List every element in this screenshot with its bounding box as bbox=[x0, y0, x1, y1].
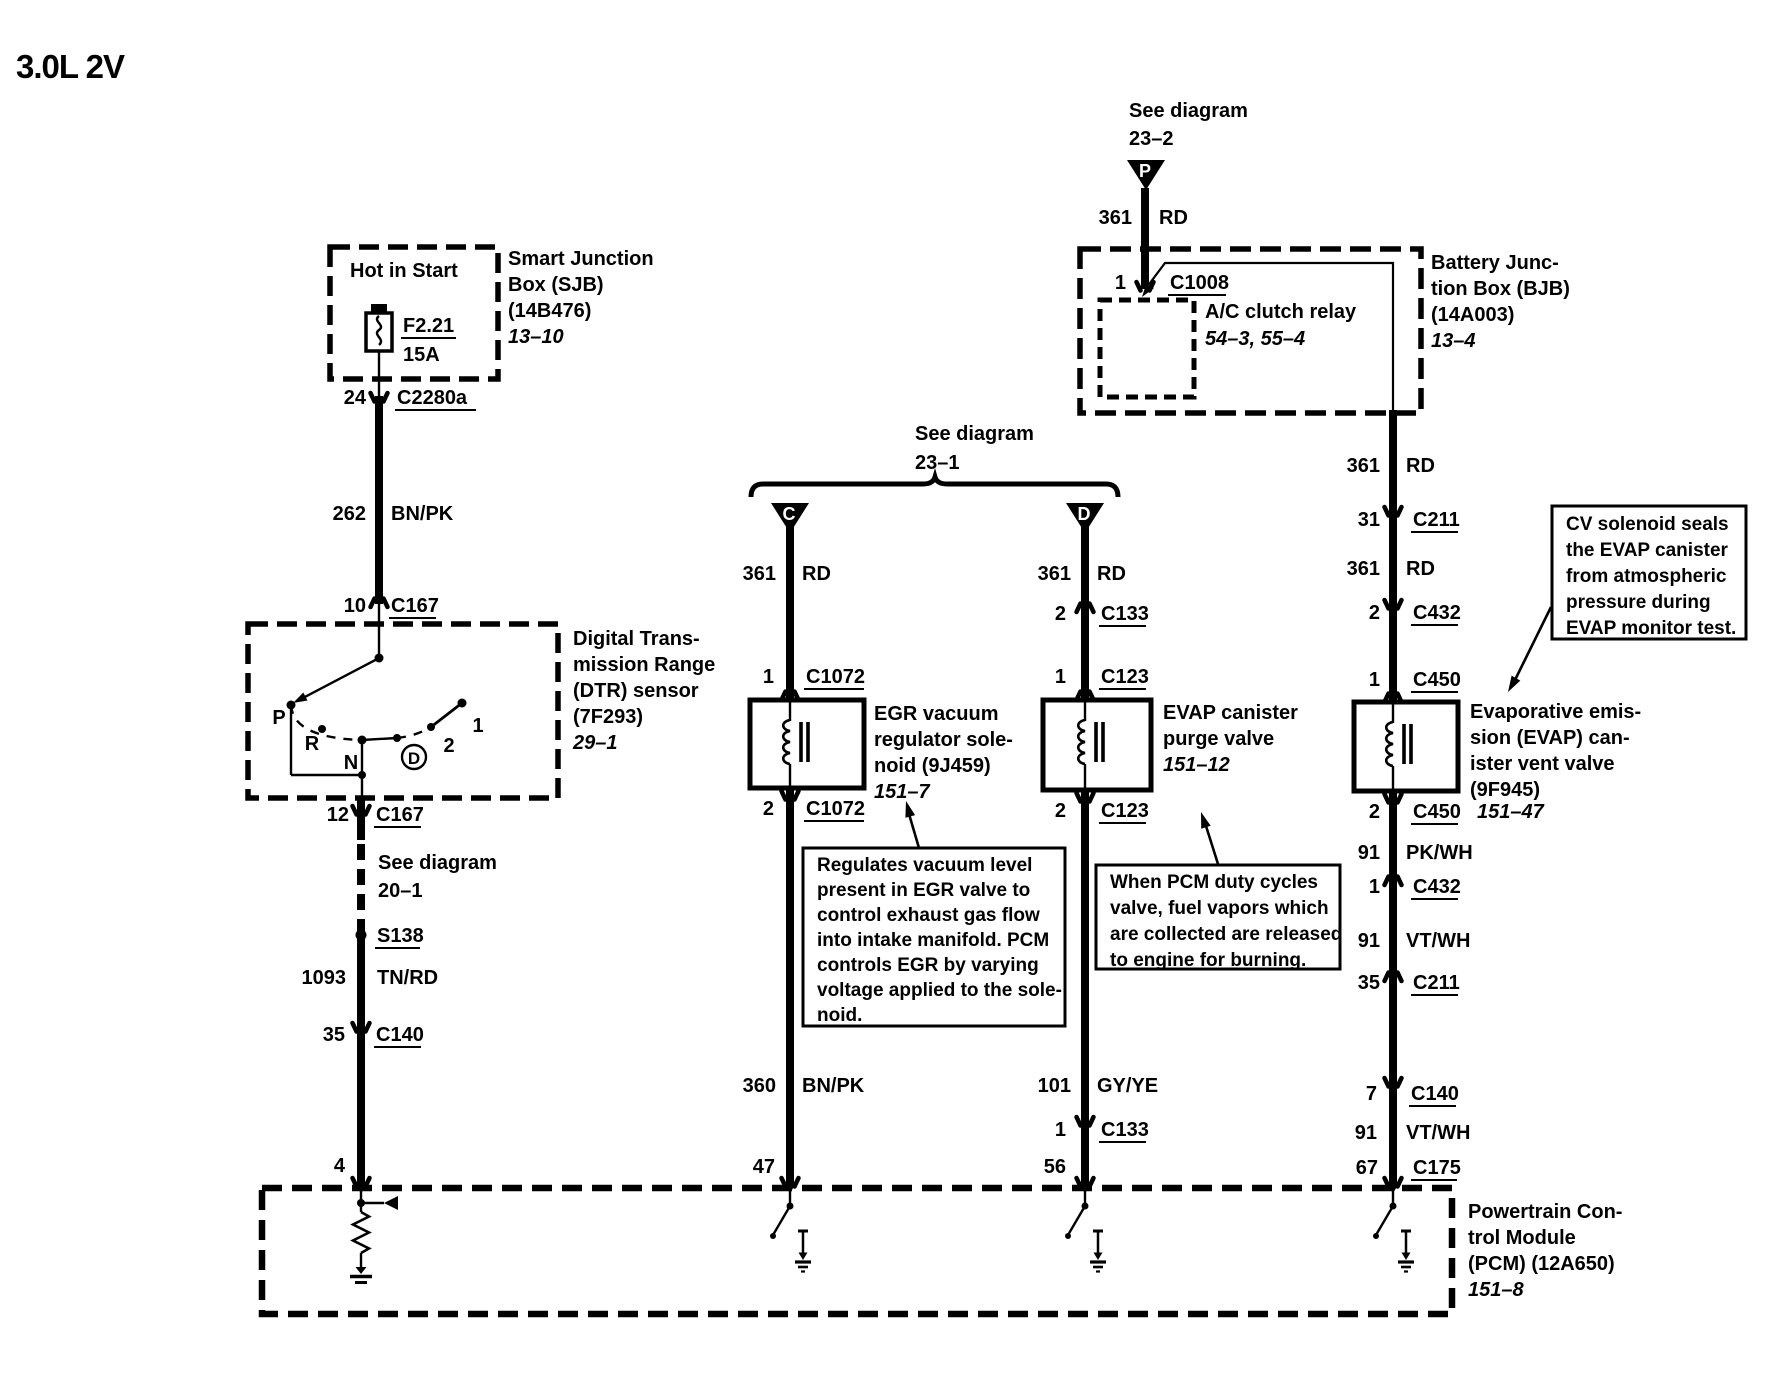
svg-text:tion Box (BJB): tion Box (BJB) bbox=[1431, 278, 1570, 300]
connector C133 pin 1 bbox=[1077, 1117, 1094, 1133]
svg-text:4: 4 bbox=[334, 1155, 346, 1177]
wire 1093 TN/RD bbox=[357, 800, 365, 840]
svg-text:C1072: C1072 bbox=[806, 666, 865, 688]
wire 361 RD below BJB bbox=[1389, 410, 1397, 702]
wire 361 RD (C) bbox=[786, 508, 794, 700]
svg-text:C167: C167 bbox=[391, 595, 439, 617]
svg-text:C211: C211 bbox=[1413, 972, 1460, 994]
svg-text:D: D bbox=[1078, 504, 1091, 524]
svg-text:20–1: 20–1 bbox=[378, 880, 423, 902]
svg-text:23–1: 23–1 bbox=[915, 452, 960, 474]
svg-text:24: 24 bbox=[344, 387, 367, 409]
EVAP canister purge valve bbox=[1043, 700, 1151, 790]
svg-text:13–4: 13–4 bbox=[1431, 330, 1476, 352]
svg-text:101: 101 bbox=[1038, 1075, 1071, 1097]
connector C432 pin 2 bbox=[1385, 600, 1402, 616]
svg-text:C432: C432 bbox=[1413, 602, 1461, 624]
svg-text:151–12: 151–12 bbox=[1163, 754, 1230, 776]
wire 2 to 1 bbox=[431, 703, 462, 727]
thin wire through BJB bbox=[1147, 263, 1393, 412]
svg-text:C140: C140 bbox=[1411, 1083, 1459, 1105]
connector C432 pin 1 bbox=[1385, 870, 1402, 886]
contact 2 bbox=[427, 723, 435, 731]
svg-text:CV solenoid seals: CV solenoid seals bbox=[1566, 514, 1729, 535]
svg-text:RD: RD bbox=[1097, 563, 1126, 585]
brace bbox=[751, 477, 1118, 497]
svg-text:C1008: C1008 bbox=[1170, 272, 1229, 294]
svg-text:See diagram: See diagram bbox=[378, 852, 497, 874]
svg-text:47: 47 bbox=[753, 1156, 775, 1178]
svg-text:See diagram: See diagram bbox=[1129, 100, 1248, 122]
contact N bbox=[358, 736, 367, 745]
connector C1008 pin 1 bbox=[1137, 282, 1154, 291]
DTR sensor box (Digital Transmission Range sensor) bbox=[248, 624, 558, 798]
splice S138 bbox=[356, 930, 367, 941]
svg-text:to engine for burning.: to engine for burning. bbox=[1110, 950, 1306, 971]
svg-text:361: 361 bbox=[1347, 558, 1380, 580]
arrow CV note to vent valve bbox=[1515, 607, 1551, 680]
wire 360 BN/PK bbox=[786, 788, 794, 1186]
svg-text:151–8: 151–8 bbox=[1468, 1279, 1524, 1301]
svg-text:54–3, 55–4: 54–3, 55–4 bbox=[1205, 328, 1305, 350]
fuse F2.21 15A bbox=[371, 304, 387, 313]
wire 361 RD (P) bbox=[1141, 188, 1149, 289]
svg-text:F2.21: F2.21 bbox=[403, 315, 454, 337]
svg-text:EVAP canister: EVAP canister bbox=[1163, 702, 1298, 724]
svg-text:1: 1 bbox=[1055, 666, 1066, 688]
note box purge valve function bbox=[1096, 865, 1340, 969]
contact D bbox=[393, 734, 401, 742]
svg-text:C211: C211 bbox=[1413, 509, 1460, 531]
connector C167 pin 12 bbox=[353, 806, 370, 822]
svg-text:361: 361 bbox=[743, 563, 776, 585]
svg-text:91: 91 bbox=[1358, 930, 1380, 952]
connector C450 pin 2 bbox=[1385, 794, 1402, 810]
svg-text:C175: C175 bbox=[1413, 1157, 1461, 1179]
contact arc P-N dashed bbox=[291, 705, 362, 740]
svg-text:C450: C450 bbox=[1413, 801, 1461, 823]
svg-text:91: 91 bbox=[1358, 842, 1380, 864]
svg-text:noid (9J459): noid (9J459) bbox=[874, 755, 991, 777]
EVAP canister vent valve 9F945 bbox=[1354, 702, 1458, 791]
svg-text:C1072: C1072 bbox=[806, 798, 865, 820]
PCM switch + ground (pin 56) bbox=[1084, 1191, 1086, 1206]
arrow note to valve bbox=[1206, 826, 1218, 864]
connector C211 pin 31 bbox=[1385, 507, 1402, 523]
svg-text:361: 361 bbox=[1099, 207, 1132, 229]
svg-text:1093: 1093 bbox=[302, 967, 347, 989]
svg-text:RD: RD bbox=[802, 563, 831, 585]
svg-text:valve, fuel vapors which: valve, fuel vapors which bbox=[1110, 898, 1329, 919]
svg-text:from atmospheric: from atmospheric bbox=[1566, 566, 1727, 587]
PCM switch + ground (pin 67) bbox=[1392, 1191, 1394, 1206]
connector C123 pin 2 bbox=[1077, 793, 1094, 809]
wire N to D contact bbox=[362, 738, 397, 740]
svg-text:Regulates vacuum level: Regulates vacuum level bbox=[817, 855, 1032, 876]
svg-text:C167: C167 bbox=[376, 804, 424, 826]
svg-text:C123: C123 bbox=[1101, 666, 1149, 688]
svg-text:C123: C123 bbox=[1101, 800, 1149, 822]
svg-text:2: 2 bbox=[763, 798, 774, 820]
resistor bbox=[353, 1212, 369, 1253]
svg-text:controls EGR by varying: controls EGR by varying bbox=[817, 955, 1039, 976]
note box CV solenoid bbox=[1552, 506, 1746, 639]
svg-text:PK/WH: PK/WH bbox=[1406, 842, 1473, 864]
svg-text:(7F293): (7F293) bbox=[573, 706, 643, 728]
svg-text:35: 35 bbox=[1358, 972, 1380, 994]
svg-text:C2280a: C2280a bbox=[397, 387, 468, 409]
svg-text:See diagram: See diagram bbox=[915, 423, 1034, 445]
svg-text:R: R bbox=[305, 733, 320, 755]
note box EGR function bbox=[803, 848, 1065, 1026]
svg-text:1: 1 bbox=[763, 666, 774, 688]
svg-text:13–10: 13–10 bbox=[508, 326, 564, 348]
svg-text:C133: C133 bbox=[1101, 1119, 1149, 1141]
svg-text:Smart Junction: Smart Junction bbox=[508, 248, 654, 270]
A/C clutch relay box bbox=[1100, 300, 1194, 397]
svg-text:mission Range: mission Range bbox=[573, 654, 715, 676]
PCM box (Powertrain Control Module) bbox=[262, 1188, 1452, 1314]
svg-text:2: 2 bbox=[1055, 800, 1066, 822]
svg-text:1: 1 bbox=[1369, 669, 1380, 691]
connector triangle P bbox=[1127, 160, 1165, 190]
contact R bbox=[318, 725, 326, 733]
svg-text:1: 1 bbox=[1055, 1119, 1066, 1141]
svg-text:35: 35 bbox=[323, 1024, 345, 1046]
svg-text:Hot in Start: Hot in Start bbox=[350, 260, 458, 282]
svg-text:Box (SJB): Box (SJB) bbox=[508, 274, 604, 296]
svg-text:pressure during: pressure during bbox=[1566, 592, 1711, 613]
svg-text:C432: C432 bbox=[1413, 876, 1461, 898]
svg-text:Evaporative emis-: Evaporative emis- bbox=[1470, 701, 1641, 723]
contact arc D-2 dashed bbox=[397, 727, 431, 738]
svg-text:trol Module: trol Module bbox=[1468, 1227, 1576, 1249]
svg-text:sion (EVAP) can-: sion (EVAP) can- bbox=[1470, 727, 1630, 749]
svg-text:1: 1 bbox=[1369, 876, 1380, 898]
svg-text:ister vent valve: ister vent valve bbox=[1470, 753, 1615, 775]
svg-text:S138: S138 bbox=[377, 925, 424, 947]
connector C211 pin 35 bbox=[1385, 966, 1402, 982]
svg-text:When PCM duty cycles: When PCM duty cycles bbox=[1110, 872, 1318, 893]
wire 361 RD (D) bbox=[1081, 508, 1089, 700]
svg-text:31: 31 bbox=[1358, 509, 1380, 531]
wire 91 PK/WH bbox=[1389, 791, 1397, 1186]
ground (pin 4) bbox=[350, 1267, 372, 1283]
connector C1072 pin 2 bbox=[782, 791, 799, 807]
wire N down to box exit bbox=[361, 744, 363, 800]
svg-text:C140: C140 bbox=[376, 1024, 424, 1046]
svg-text:151–7: 151–7 bbox=[874, 781, 930, 803]
connector triangle C bbox=[771, 503, 809, 533]
svg-text:(14A003): (14A003) bbox=[1431, 304, 1514, 326]
PCM switch + ground (pin 47) bbox=[789, 1191, 791, 1206]
svg-text:P: P bbox=[1139, 161, 1151, 181]
svg-text:7: 7 bbox=[1366, 1083, 1377, 1105]
arrow note to solenoid bbox=[909, 814, 919, 848]
wire into DTR bbox=[378, 604, 380, 658]
svg-text:262: 262 bbox=[333, 503, 366, 525]
svg-text:56: 56 bbox=[1044, 1156, 1066, 1178]
svg-text:control exhaust gas flow: control exhaust gas flow bbox=[817, 905, 1040, 926]
svg-text:361: 361 bbox=[1038, 563, 1071, 585]
svg-text:Powertrain Con-: Powertrain Con- bbox=[1468, 1201, 1622, 1223]
svg-text:BN/PK: BN/PK bbox=[391, 503, 454, 525]
svg-text:RD: RD bbox=[1159, 207, 1188, 229]
connector C1072 pin 1 bbox=[782, 685, 799, 701]
connector triangle D bbox=[1066, 503, 1104, 533]
svg-text:RD: RD bbox=[1406, 455, 1435, 477]
connector C450 pin 1 bbox=[1385, 687, 1402, 703]
svg-text:C133: C133 bbox=[1101, 603, 1149, 625]
svg-text:GY/YE: GY/YE bbox=[1097, 1075, 1158, 1097]
contact 1 bbox=[458, 699, 467, 708]
node junction top bbox=[375, 654, 384, 663]
svg-text:12: 12 bbox=[327, 804, 349, 826]
Battery Junction Box BJB bbox=[1080, 249, 1421, 413]
wire 262 BN/PK bbox=[375, 396, 383, 604]
wire P to N bbox=[290, 705, 292, 775]
svg-text:(14B476): (14B476) bbox=[508, 300, 591, 322]
svg-text:360: 360 bbox=[743, 1075, 776, 1097]
svg-text:15A: 15A bbox=[403, 344, 440, 366]
EGR vacuum regulator solenoid 9J459 bbox=[750, 700, 864, 788]
svg-text:D: D bbox=[408, 749, 420, 768]
svg-text:present in EGR valve to: present in EGR valve to bbox=[817, 880, 1030, 901]
svg-text:23–2: 23–2 bbox=[1129, 128, 1174, 150]
svg-text:voltage applied to the sole-: voltage applied to the sole- bbox=[817, 980, 1062, 1001]
svg-text:29–1: 29–1 bbox=[572, 732, 618, 754]
svg-text:purge valve: purge valve bbox=[1163, 728, 1274, 750]
svg-text:C450: C450 bbox=[1413, 669, 1461, 691]
svg-text:P: P bbox=[272, 707, 285, 729]
svg-text:10: 10 bbox=[344, 595, 366, 617]
junction box SJB (Smart Junction Box) bbox=[330, 247, 498, 379]
connector C140 pin 35 bbox=[353, 1023, 370, 1039]
svg-text:67: 67 bbox=[1356, 1157, 1378, 1179]
svg-text:3.0L 2V: 3.0L 2V bbox=[16, 48, 125, 85]
svg-text:VT/WH: VT/WH bbox=[1406, 930, 1470, 952]
svg-text:2: 2 bbox=[1369, 801, 1380, 823]
svg-text:are collected are released: are collected are released bbox=[1110, 924, 1342, 945]
svg-text:361: 361 bbox=[1347, 455, 1380, 477]
svg-text:1: 1 bbox=[472, 715, 483, 737]
PCM pin 4 internal resistor to ground bbox=[360, 1191, 362, 1212]
svg-text:A/C clutch relay: A/C clutch relay bbox=[1205, 301, 1357, 323]
svg-text:EVAP monitor test.: EVAP monitor test. bbox=[1566, 618, 1736, 639]
svg-text:TN/RD: TN/RD bbox=[377, 967, 438, 989]
svg-text:noid.: noid. bbox=[817, 1005, 862, 1026]
svg-text:151–47: 151–47 bbox=[1477, 801, 1545, 823]
svg-text:RD: RD bbox=[1406, 558, 1435, 580]
svg-text:(DTR) sensor: (DTR) sensor bbox=[573, 680, 699, 702]
svg-text:2: 2 bbox=[1055, 603, 1066, 625]
svg-text:regulator sole-: regulator sole- bbox=[874, 729, 1013, 751]
contact P bbox=[287, 701, 296, 710]
connector C133 pin 2 bbox=[1077, 597, 1094, 613]
svg-text:C: C bbox=[783, 504, 796, 524]
svg-text:VT/WH: VT/WH bbox=[1406, 1122, 1470, 1144]
svg-text:(9F945): (9F945) bbox=[1470, 779, 1540, 801]
wire fuse to C2280a bbox=[378, 351, 380, 396]
connector C2280a pin 24 bbox=[371, 393, 388, 409]
connector C140 pin 7 bbox=[1385, 1078, 1402, 1094]
svg-text:1: 1 bbox=[1115, 272, 1126, 294]
svg-text:N: N bbox=[344, 752, 358, 774]
wire 101 GY/YE bbox=[1081, 790, 1089, 1186]
svg-text:(PCM) (12A650): (PCM) (12A650) bbox=[1468, 1253, 1615, 1275]
svg-text:91: 91 bbox=[1355, 1122, 1377, 1144]
switch wiper arm bbox=[299, 658, 379, 700]
svg-text:Battery Junc-: Battery Junc- bbox=[1431, 252, 1559, 274]
connector C167 pin 10 bbox=[371, 592, 388, 608]
svg-text:BN/PK: BN/PK bbox=[802, 1075, 865, 1097]
svg-text:the EVAP canister: the EVAP canister bbox=[1566, 540, 1729, 561]
svg-text:2: 2 bbox=[1369, 602, 1380, 624]
svg-text:EGR vacuum: EGR vacuum bbox=[874, 703, 998, 725]
connector C123 pin 1 bbox=[1077, 685, 1094, 701]
svg-text:into intake manifold. PCM: into intake manifold. PCM bbox=[817, 930, 1049, 951]
svg-text:Digital Trans-: Digital Trans- bbox=[573, 628, 700, 650]
svg-text:2: 2 bbox=[443, 735, 454, 757]
